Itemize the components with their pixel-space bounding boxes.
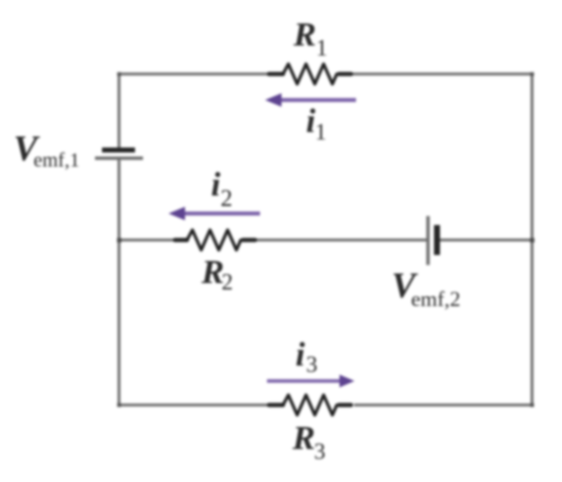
svg-text:2: 2 — [222, 270, 234, 295]
svg-text:1: 1 — [316, 36, 328, 61]
node: bottom-right corner — [530, 403, 534, 407]
resistor R3 — [269, 395, 351, 415]
svg-text:i: i — [211, 167, 221, 204]
svg-text:2: 2 — [221, 186, 233, 212]
svg-text:emf,2: emf,2 — [411, 287, 461, 311]
node: middle-right junction — [530, 238, 534, 242]
wire: middle battery to right wire — [438, 239, 532, 242]
svg-text:R: R — [292, 420, 316, 457]
label i1 — [306, 103, 327, 145]
svg-text:emf,1: emf,1 — [34, 150, 80, 172]
label V_emf,1 — [14, 128, 80, 172]
resistor R2 — [175, 230, 255, 250]
arrow i3 — [267, 375, 355, 388]
svg-text:3: 3 — [306, 352, 318, 377]
node: middle-left junction — [117, 238, 121, 242]
wire: bottom left to R3 — [119, 404, 270, 407]
arrow i1 — [265, 93, 356, 107]
label i2 — [211, 167, 233, 213]
wire: middle R2 to battery V_emf,2 — [256, 239, 427, 242]
node: top-left corner — [117, 72, 121, 76]
resistor R1 — [269, 64, 351, 84]
arrow i2 — [169, 207, 261, 221]
label V_emf,2 — [392, 265, 461, 311]
svg-text:3: 3 — [314, 439, 326, 464]
label R2 — [201, 254, 234, 295]
battery V_emf,2 — [426, 216, 440, 265]
wire: R3 to bottom-right corner — [354, 404, 532, 407]
node: top-right corner — [530, 72, 534, 76]
label R1 — [293, 17, 328, 61]
wire: middle left segment to R2 — [119, 239, 176, 242]
svg-text:1: 1 — [315, 120, 327, 145]
svg-text:R: R — [293, 17, 317, 54]
node: bottom-left corner — [117, 403, 121, 407]
wire: top resistor to top-right corner — [352, 73, 532, 76]
wire: right vertical — [531, 73, 534, 407]
label i3 — [296, 337, 318, 378]
wire: left vertical upper (to battery V_emf,1) — [118, 73, 121, 148]
wire: left vertical lower (battery to bottom corner) — [118, 159, 121, 406]
wire: top-left to top resistor — [119, 73, 270, 76]
svg-text:i: i — [296, 337, 306, 374]
battery V_emf,1 — [95, 148, 143, 160]
label R3 — [292, 420, 326, 464]
